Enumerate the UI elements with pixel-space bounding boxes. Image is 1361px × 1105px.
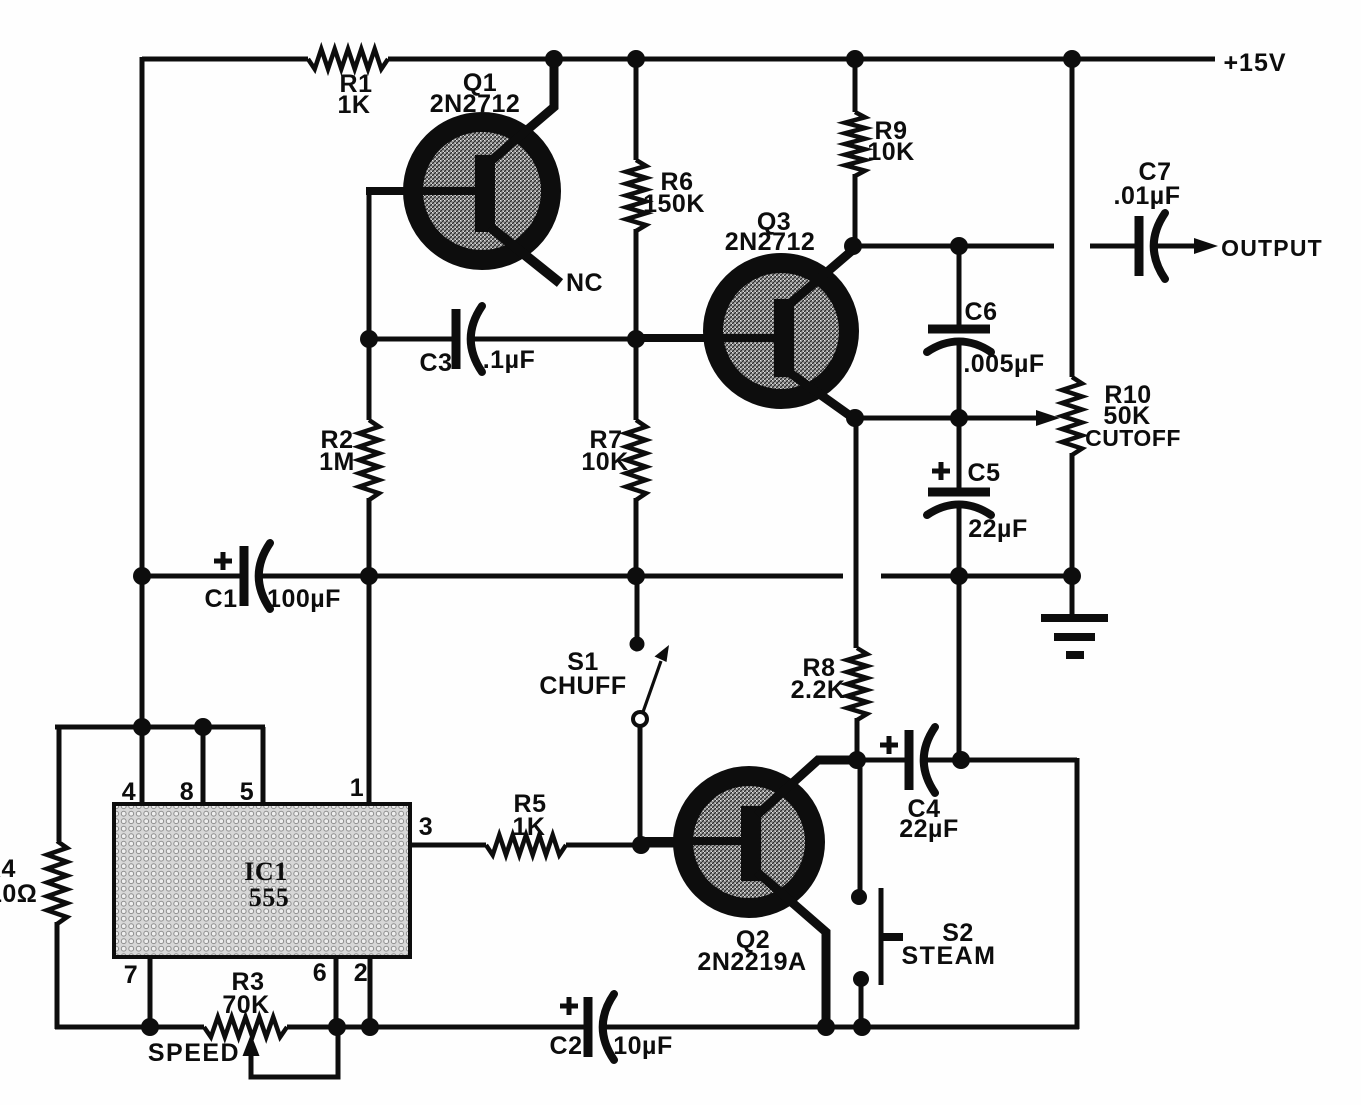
svg-text:100µF: 100µF [267,585,341,613]
svg-text:.01µF: .01µF [1114,182,1181,210]
svg-text:2N2712: 2N2712 [725,228,816,256]
svg-text:2N2712: 2N2712 [430,90,521,118]
svg-text:2: 2 [354,959,368,987]
svg-text:C2: C2 [550,1032,583,1060]
svg-text:7: 7 [124,961,138,989]
svg-text:10K: 10K [867,138,914,166]
svg-text:STEAM: STEAM [902,942,997,970]
svg-text:1K: 1K [338,91,371,119]
svg-text:70K: 70K [222,991,269,1019]
svg-text:1: 1 [350,774,364,802]
svg-text:SPEED: SPEED [148,1039,240,1067]
svg-text:C1: C1 [205,585,238,613]
svg-text:C6: C6 [965,298,998,326]
svg-text:22µF: 22µF [899,815,958,843]
svg-text:NC: NC [566,269,603,297]
svg-text:5: 5 [240,778,254,806]
svg-text:4: 4 [122,778,136,806]
svg-text:C5: C5 [968,459,1001,487]
svg-text:3: 3 [419,813,433,841]
svg-text:+15V: +15V [1223,49,1286,77]
svg-text:10µF: 10µF [613,1032,672,1060]
svg-text:10Ω: 10Ω [0,880,37,908]
svg-text:1K: 1K [513,813,546,841]
svg-text:1M: 1M [319,448,355,476]
svg-text:8: 8 [180,778,194,806]
svg-text:2.2K: 2.2K [791,676,846,704]
svg-text:10K: 10K [581,448,628,476]
svg-text:R4: R4 [0,855,16,883]
svg-text:CUTOFF: CUTOFF [1085,425,1181,451]
svg-text:555: 555 [249,883,290,912]
svg-text:CHUFF: CHUFF [539,672,626,700]
svg-text:150K: 150K [643,190,705,218]
svg-text:OUTPUT: OUTPUT [1221,235,1323,261]
svg-text:6: 6 [313,959,327,987]
svg-text:C3: C3 [420,349,453,377]
svg-text:22µF: 22µF [968,515,1027,543]
svg-text:.005µF: .005µF [963,350,1044,378]
svg-text:IC1: IC1 [244,857,287,886]
svg-text:.1µF: .1µF [483,346,536,374]
svg-text:2N2219A: 2N2219A [697,948,806,976]
